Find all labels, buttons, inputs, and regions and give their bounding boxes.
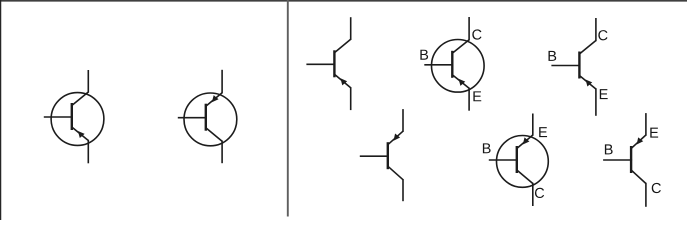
emitter arrow of Q8 (points into base: PNP) xyxy=(637,137,644,144)
base bar of Q3 xyxy=(333,50,335,77)
envelope circle of Q2 xyxy=(184,93,237,146)
wire: base lead of Q6 xyxy=(360,155,389,157)
envelope circle of Q1 xyxy=(51,93,104,146)
wire: top diagonal of Q7 xyxy=(517,135,533,149)
top border line xyxy=(0,0,687,2)
pin label E of Q5 xyxy=(600,89,608,99)
pin label B of Q4 xyxy=(420,50,428,60)
wire: top vertical lead of Q3 xyxy=(350,17,352,40)
base bar of Q1 xyxy=(71,103,73,130)
transistor Q7 (PNP, circled, emitter top) xyxy=(483,114,548,207)
wire: top diagonal of Q5 xyxy=(579,41,596,55)
pin label E of Q8 xyxy=(650,128,658,138)
wire: top vertical lead of Q7 xyxy=(532,114,534,136)
wire: bottom diagonal of Q1 xyxy=(72,127,89,141)
wire: base lead of Q5 xyxy=(551,65,580,67)
wire: bottom vertical lead of Q3 xyxy=(350,87,352,110)
wire: top vertical lead of Q2 xyxy=(221,70,223,94)
wire: base lead of Q8 xyxy=(603,159,632,161)
emitter arrow of Q2 (points into base: PNP) xyxy=(212,95,219,102)
envelope circle of Q4 xyxy=(432,40,485,93)
wire: bottom diagonal of Q4 xyxy=(452,75,469,89)
pin label E of Q4 xyxy=(473,91,481,101)
wire: top vertical lead of Q5 xyxy=(595,18,597,41)
pin label C of Q5 xyxy=(598,30,607,40)
emitter arrow of Q1 (points into base: PNP) xyxy=(78,131,85,138)
wire: bottom diagonal of Q2 xyxy=(206,128,222,142)
base bar of Q8 xyxy=(630,146,632,173)
wire: top diagonal of Q8 xyxy=(631,135,646,149)
pin label C of Q7 xyxy=(535,188,544,198)
wire: bottom diagonal of Q7 xyxy=(517,170,533,184)
pin label B of Q8 xyxy=(605,144,613,154)
wire: base lead of Q4 xyxy=(424,64,453,66)
wire: top diagonal of Q3 xyxy=(334,39,350,53)
transistor Q8 (PNP, uncircled, emitter top) xyxy=(603,113,661,207)
emitter arrow of Q7 (points into base: PNP) xyxy=(523,137,530,144)
wire: bottom vertical lead of Q6 xyxy=(402,179,404,201)
wire: bottom vertical lead of Q8 xyxy=(645,183,647,207)
wire: bottom vertical lead of Q5 xyxy=(595,88,597,116)
wire: top diagonal of Q2 xyxy=(206,93,222,107)
wire: base lead of Q2 xyxy=(178,117,207,119)
base bar of Q4 xyxy=(451,51,453,78)
emitter arrow of Q6 (points into base: PNP) xyxy=(394,134,401,141)
envelope circle of Q7 xyxy=(497,136,549,188)
wire: top vertical lead of Q6 xyxy=(402,109,404,132)
wire: bottom diagonal of Q5 xyxy=(579,76,596,90)
pin label C of Q4 xyxy=(472,29,481,39)
transistor Q5 (PNP, uncircled, emitter bottom) xyxy=(548,18,607,116)
transistor Q1 (PNP, circled, emitter bottom) xyxy=(44,70,104,163)
wire: top diagonal of Q6 xyxy=(388,131,403,145)
emitter arrow of Q3 (points into base: PNP) xyxy=(340,78,347,85)
base bar of Q5 xyxy=(578,52,580,79)
transistor Q4 (PNP, circled, emitter bottom) xyxy=(420,17,484,111)
wire: base lead of Q1 xyxy=(44,116,73,118)
base bar of Q6 xyxy=(387,142,389,169)
transistor Q6 (PNP, uncircled, emitter top) xyxy=(360,109,403,201)
emitter arrow of Q4 (points into base: PNP) xyxy=(459,79,466,86)
wire: bottom diagonal of Q6 xyxy=(388,166,403,180)
wire: bottom vertical lead of Q2 xyxy=(221,141,223,164)
wire: top vertical lead of Q1 xyxy=(87,70,89,93)
transistor Q2 (PNP, circled, emitter top) xyxy=(178,70,237,163)
wire: top vertical lead of Q8 xyxy=(645,113,647,136)
base bar of Q2 xyxy=(205,104,207,131)
pin label B of Q7 xyxy=(483,143,491,153)
transistor Q3 (PNP, uncircled, emitter bottom) xyxy=(306,17,350,110)
wire: bottom vertical lead of Q4 xyxy=(468,88,470,111)
panel divider line xyxy=(287,0,289,217)
left border line xyxy=(0,0,2,220)
wire: bottom diagonal of Q8 xyxy=(631,170,646,184)
wire: bottom vertical lead of Q7 xyxy=(532,183,534,206)
wire: base lead of Q7 xyxy=(489,159,518,161)
pin label E of Q7 xyxy=(539,127,547,137)
pin label C of Q8 xyxy=(652,183,661,193)
emitter arrow of Q5 (points into base: PNP) xyxy=(586,79,593,86)
base bar of Q7 xyxy=(516,146,518,173)
wire: top diagonal of Q4 xyxy=(452,40,469,54)
wire: top vertical lead of Q4 xyxy=(468,17,470,41)
pin label B of Q5 xyxy=(548,51,556,61)
wire: bottom vertical lead of Q1 xyxy=(87,140,89,164)
wire: top diagonal of Q1 xyxy=(72,92,89,106)
wire: bottom diagonal of Q3 xyxy=(334,74,350,88)
wire: base lead of Q3 xyxy=(306,63,335,65)
